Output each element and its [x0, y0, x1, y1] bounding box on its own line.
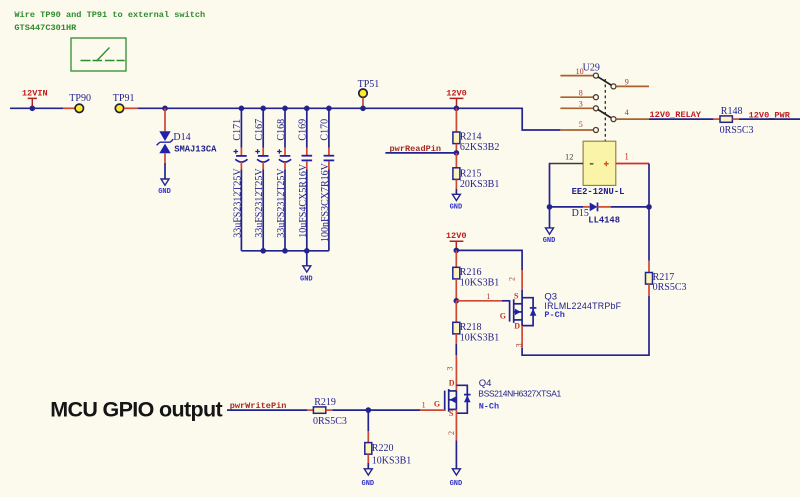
svg-text:C167: C167 [254, 119, 265, 141]
svg-text:3: 3 [515, 343, 524, 347]
pin R218 bottom [455, 334, 457, 344]
svg-text:S: S [514, 291, 519, 300]
wire R148 to edge [739, 118, 800, 120]
pin of TP90 [63, 107, 75, 109]
pin R215 bottom [455, 179, 457, 189]
pin number 1 Q4 gate [422, 401, 426, 410]
relay actuator dashed link [604, 79, 606, 141]
resistor R219 [313, 397, 347, 427]
relay contact pin 4 [611, 108, 649, 122]
pin R214 bottom [455, 144, 457, 153]
pin R218 top [455, 301, 457, 323]
svg-text:BSS214NH6327XTSA1: BSS214NH6327XTSA1 [478, 388, 561, 398]
junction coil left D15 [547, 204, 553, 210]
pin Q4 drain (3) [455, 355, 457, 391]
junction coil right D15 [646, 204, 652, 210]
test point TP51 [358, 79, 380, 107]
pin Q4 source (2) [455, 409, 457, 440]
svg-text:0RS5C3: 0RS5C3 [720, 125, 754, 136]
svg-text:12V0: 12V0 [446, 231, 467, 241]
junction 12V0 Q3 node [454, 248, 460, 254]
pin number 3 Q3 [515, 343, 524, 347]
svg-text:TP91: TP91 [113, 93, 135, 104]
pin R214 top [455, 108, 457, 132]
svg-text:D: D [449, 379, 455, 388]
resistor R148 [720, 106, 754, 136]
ground R215 [450, 194, 463, 211]
svg-text:LL4148: LL4148 [588, 216, 620, 226]
svg-text:TP90: TP90 [69, 93, 91, 104]
relay contact pin 10 [560, 67, 598, 78]
pin R148 right [732, 118, 739, 120]
svg-text:N-Ch: N-Ch [479, 402, 499, 412]
comment text line 2 [14, 23, 77, 33]
svg-text:33uFS2312T25V: 33uFS2312T25V [276, 168, 287, 238]
svg-text:1: 1 [624, 152, 629, 162]
wire gate node down [367, 410, 369, 431]
svg-text:G: G [434, 400, 440, 409]
svg-text:33uFS2312T25V: 33uFS2312T25V [254, 168, 265, 238]
wire R215 to ground [455, 189, 457, 194]
resistor R217 [646, 272, 687, 293]
wire coil pin1 down [648, 164, 650, 261]
net label 12V0_RELAY [650, 110, 702, 120]
power port 12V0 (top) [446, 88, 467, 107]
svg-text:R148: R148 [721, 106, 743, 117]
svg-text:33uFS2312T25V: 33uFS2312T25V [232, 168, 243, 238]
ground R220 [362, 469, 375, 488]
svg-text:GND: GND [362, 480, 375, 488]
wire capacitor ground rail [241, 250, 329, 252]
diode D15 [572, 203, 620, 226]
resistor R216 [453, 267, 499, 288]
svg-text:G: G [500, 312, 506, 321]
svg-text:100nFS3CX7R16V: 100nFS3CX7R16V [320, 162, 331, 242]
svg-text:8: 8 [579, 88, 583, 97]
wire R220 to ground [367, 463, 369, 469]
wire R217 to Q3 drain [522, 296, 649, 355]
svg-text:10KS3B1: 10KS3B1 [460, 277, 499, 288]
pin R220 top [367, 431, 369, 443]
wire R218 to Q4 drain [455, 344, 457, 355]
pin 1 relay coil [616, 152, 649, 164]
junction 12VIN node [30, 106, 36, 112]
wire pin4 to R148 [649, 118, 713, 120]
svg-text:12VIN: 12VIN [22, 88, 48, 98]
svg-text:10KS3B1: 10KS3B1 [372, 456, 411, 467]
pin D14 bottom [164, 153, 166, 163]
wire D15 anode [550, 206, 584, 208]
junction cap rail C167 [260, 248, 266, 254]
comment text line 1 [14, 10, 205, 20]
relay coil U29 EE2-12NU-L [572, 141, 625, 197]
svg-text:D15: D15 [572, 208, 589, 219]
pin Q4 gate (1) [420, 409, 445, 411]
junction TP51 node [360, 106, 366, 112]
pin D15 right [598, 206, 611, 208]
relay switch U29 designator [583, 63, 600, 74]
svg-text:C170: C170 [320, 119, 331, 141]
capacitor C168 [276, 106, 291, 251]
test point TP91 [113, 93, 135, 113]
junction 12V0 rail node [454, 106, 460, 112]
svg-text:C168: C168 [276, 119, 287, 141]
svg-text:Wire TP90 and TP91 to external: Wire TP90 and TP91 to external switch [14, 10, 205, 20]
transistor Q3 IRLML2244TRPbF [500, 290, 622, 331]
svg-text:D: D [514, 322, 520, 331]
wire Q4 source to ground [455, 441, 457, 469]
wire D14 to ground [164, 163, 166, 179]
wire 12V0 to Q3 source [456, 250, 522, 270]
svg-text:GTS447C301HR: GTS447C301HR [14, 23, 77, 33]
pin number 2 Q4 [447, 431, 456, 435]
pin D14 top [164, 108, 166, 131]
wire D15 to coil pin1 [611, 206, 649, 208]
relay contact pin 5 [560, 120, 598, 132]
relay contact pin 9 [611, 77, 649, 89]
capacitor C171 [232, 106, 247, 251]
svg-text:GND: GND [543, 237, 556, 245]
ground relay coil [543, 228, 556, 245]
svg-text:3: 3 [445, 367, 454, 371]
svg-text:2: 2 [447, 431, 456, 435]
svg-text:1: 1 [422, 401, 426, 410]
junction R220 gate node [366, 407, 372, 413]
switch symbol box GTS447C301HR [71, 38, 126, 71]
svg-text:10uFS4CX5R16V: 10uFS4CX5R16V [298, 163, 309, 238]
svg-text:GND: GND [450, 204, 463, 212]
power port 12V0 (Q3) [446, 231, 467, 249]
wire left input segment [10, 107, 63, 109]
section title MCU GPIO output [50, 397, 222, 421]
svg-text:10: 10 [576, 67, 584, 76]
relay blade 10-9 [598, 77, 612, 86]
pin R148 left [713, 118, 720, 120]
transistor Q4 BSS214NH [434, 378, 562, 418]
pin R217 top [648, 261, 650, 273]
capacitor C167 [254, 106, 269, 251]
ground Q4 [450, 469, 463, 488]
pin R216 bottom [455, 279, 457, 301]
svg-text:4: 4 [625, 108, 629, 117]
pin Q3 drain (3) [521, 326, 523, 348]
relay contact pin 8 [560, 88, 598, 99]
svg-text:GND: GND [158, 188, 171, 196]
ground D14 [158, 179, 171, 196]
wire pwrWritePin to R219 [227, 409, 307, 411]
svg-text:R219: R219 [314, 397, 336, 408]
pin R217 bottom [648, 284, 650, 296]
junction cap rail C169 [304, 248, 310, 254]
svg-text:1: 1 [486, 292, 490, 301]
wire main 12V0 rail [138, 108, 560, 130]
pin R219 left [307, 409, 313, 411]
pin number 3 Q4 [445, 367, 454, 371]
pin D15 left [583, 206, 590, 208]
svg-text:12: 12 [565, 152, 574, 162]
wire cap rail to ground [306, 251, 308, 266]
resistor R218 [453, 322, 499, 343]
ground capacitor bank [300, 266, 313, 284]
pin R216 top [455, 250, 457, 267]
svg-text:C169: C169 [298, 119, 309, 141]
svg-text:SMAJ13CA: SMAJ13CA [174, 145, 217, 155]
pin Q3 source (2) [521, 270, 523, 290]
pin R215 top [455, 153, 457, 168]
pin of TP91 [124, 107, 138, 109]
svg-text:0RS5C3: 0RS5C3 [653, 282, 687, 293]
resistor R220 [365, 443, 411, 467]
svg-text:D14: D14 [173, 132, 190, 143]
pin number 1 Q3 gate [486, 292, 490, 301]
svg-text:Q4: Q4 [479, 378, 492, 389]
net label 12V0_PWR [749, 110, 791, 120]
net label pwrWritePin [230, 401, 287, 411]
svg-text:R220: R220 [372, 443, 394, 454]
svg-text:2: 2 [507, 277, 516, 281]
svg-text:EE2-12NU-L: EE2-12NU-L [572, 187, 625, 197]
svg-text:20KS3B1: 20KS3B1 [460, 179, 499, 190]
pin R219 right [326, 409, 333, 411]
svg-text:GND: GND [300, 276, 313, 284]
test point TP90 [69, 93, 91, 113]
wire coil pin12 down [549, 164, 551, 228]
svg-text:TP51: TP51 [358, 79, 380, 90]
capacitor C170 [320, 106, 335, 251]
svg-text:MCU GPIO output: MCU GPIO output [50, 397, 222, 421]
junction R214 R215 node [454, 150, 460, 156]
svg-text:GND: GND [450, 480, 463, 488]
wire R219 to gate node [332, 409, 420, 411]
svg-text:U29: U29 [583, 63, 600, 74]
net label 12VIN [22, 88, 48, 107]
svg-text:0RS5C3: 0RS5C3 [313, 416, 347, 427]
relay contact pin 3 [560, 99, 598, 111]
junction cap rail C168 [282, 248, 288, 254]
svg-text:S: S [449, 409, 454, 418]
resistor R215 [453, 168, 499, 190]
svg-text:10KS3B1: 10KS3B1 [460, 332, 499, 343]
svg-text:62KS3B2: 62KS3B2 [460, 142, 499, 153]
svg-text:5: 5 [579, 120, 583, 129]
svg-text:12V0: 12V0 [446, 88, 467, 98]
svg-text:P-Ch: P-Ch [544, 310, 564, 320]
resistor R214 [453, 132, 499, 153]
junction R216 R218 gate node [454, 298, 460, 304]
net label pwrReadPin [390, 144, 442, 154]
wire gate Q3 [456, 300, 502, 302]
wire pwrReadPin [385, 152, 456, 154]
pin R220 bottom [367, 454, 369, 463]
relay blade 3-4 [598, 110, 612, 119]
svg-text:C171: C171 [232, 119, 243, 141]
TVS diode D14 [157, 131, 218, 154]
pin number 2 Q3 [507, 277, 516, 281]
capacitor C169 [298, 106, 313, 251]
svg-text:3: 3 [579, 99, 583, 108]
svg-text:9: 9 [625, 77, 629, 86]
junction node D14 [162, 106, 168, 112]
pin 12 relay coil [549, 152, 583, 164]
